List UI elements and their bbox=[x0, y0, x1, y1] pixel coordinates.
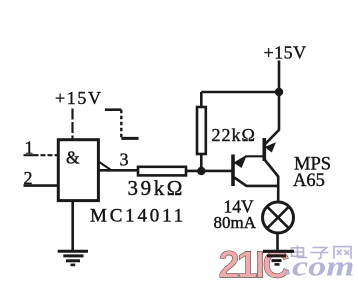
svg-text:A65: A65 bbox=[293, 171, 325, 191]
svg-text:3: 3 bbox=[120, 150, 129, 170]
svg-text:1: 1 bbox=[25, 138, 34, 158]
svg-text:&: & bbox=[66, 148, 80, 168]
svg-text:MC14011: MC14011 bbox=[90, 206, 186, 227]
svg-text:+15V: +15V bbox=[264, 43, 307, 63]
svg-text:80mA: 80mA bbox=[214, 213, 257, 232]
svg-text:+15V: +15V bbox=[55, 88, 103, 108]
svg-text:22kΩ: 22kΩ bbox=[212, 125, 256, 145]
svg-text:39kΩ: 39kΩ bbox=[128, 176, 186, 200]
svg-text:2: 2 bbox=[24, 168, 33, 188]
svg-text:com: com bbox=[292, 251, 355, 283]
